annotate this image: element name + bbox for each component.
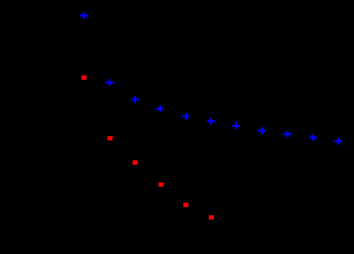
red square marker 4 xyxy=(159,182,164,186)
blue plus marker 8 xyxy=(258,127,266,134)
blue plus marker 7 xyxy=(232,122,240,129)
blue plus marker 11 xyxy=(334,138,342,145)
blue plus marker 1 xyxy=(80,12,88,19)
red square marker 2 xyxy=(108,136,113,140)
red square marker 1 xyxy=(81,75,86,79)
blue plus marker 10 xyxy=(309,134,317,141)
blue plus marker 4 xyxy=(156,105,164,112)
blue plus marker 9 xyxy=(284,131,292,138)
red square marker 6 xyxy=(209,215,214,219)
blue plus marker 5 xyxy=(182,113,190,120)
blue plus marker 3 xyxy=(131,96,139,103)
blue plus marker 2 xyxy=(106,79,114,86)
red square marker 3 xyxy=(133,160,138,164)
blue plus marker 6 xyxy=(207,118,215,125)
red square marker 5 xyxy=(183,203,188,207)
